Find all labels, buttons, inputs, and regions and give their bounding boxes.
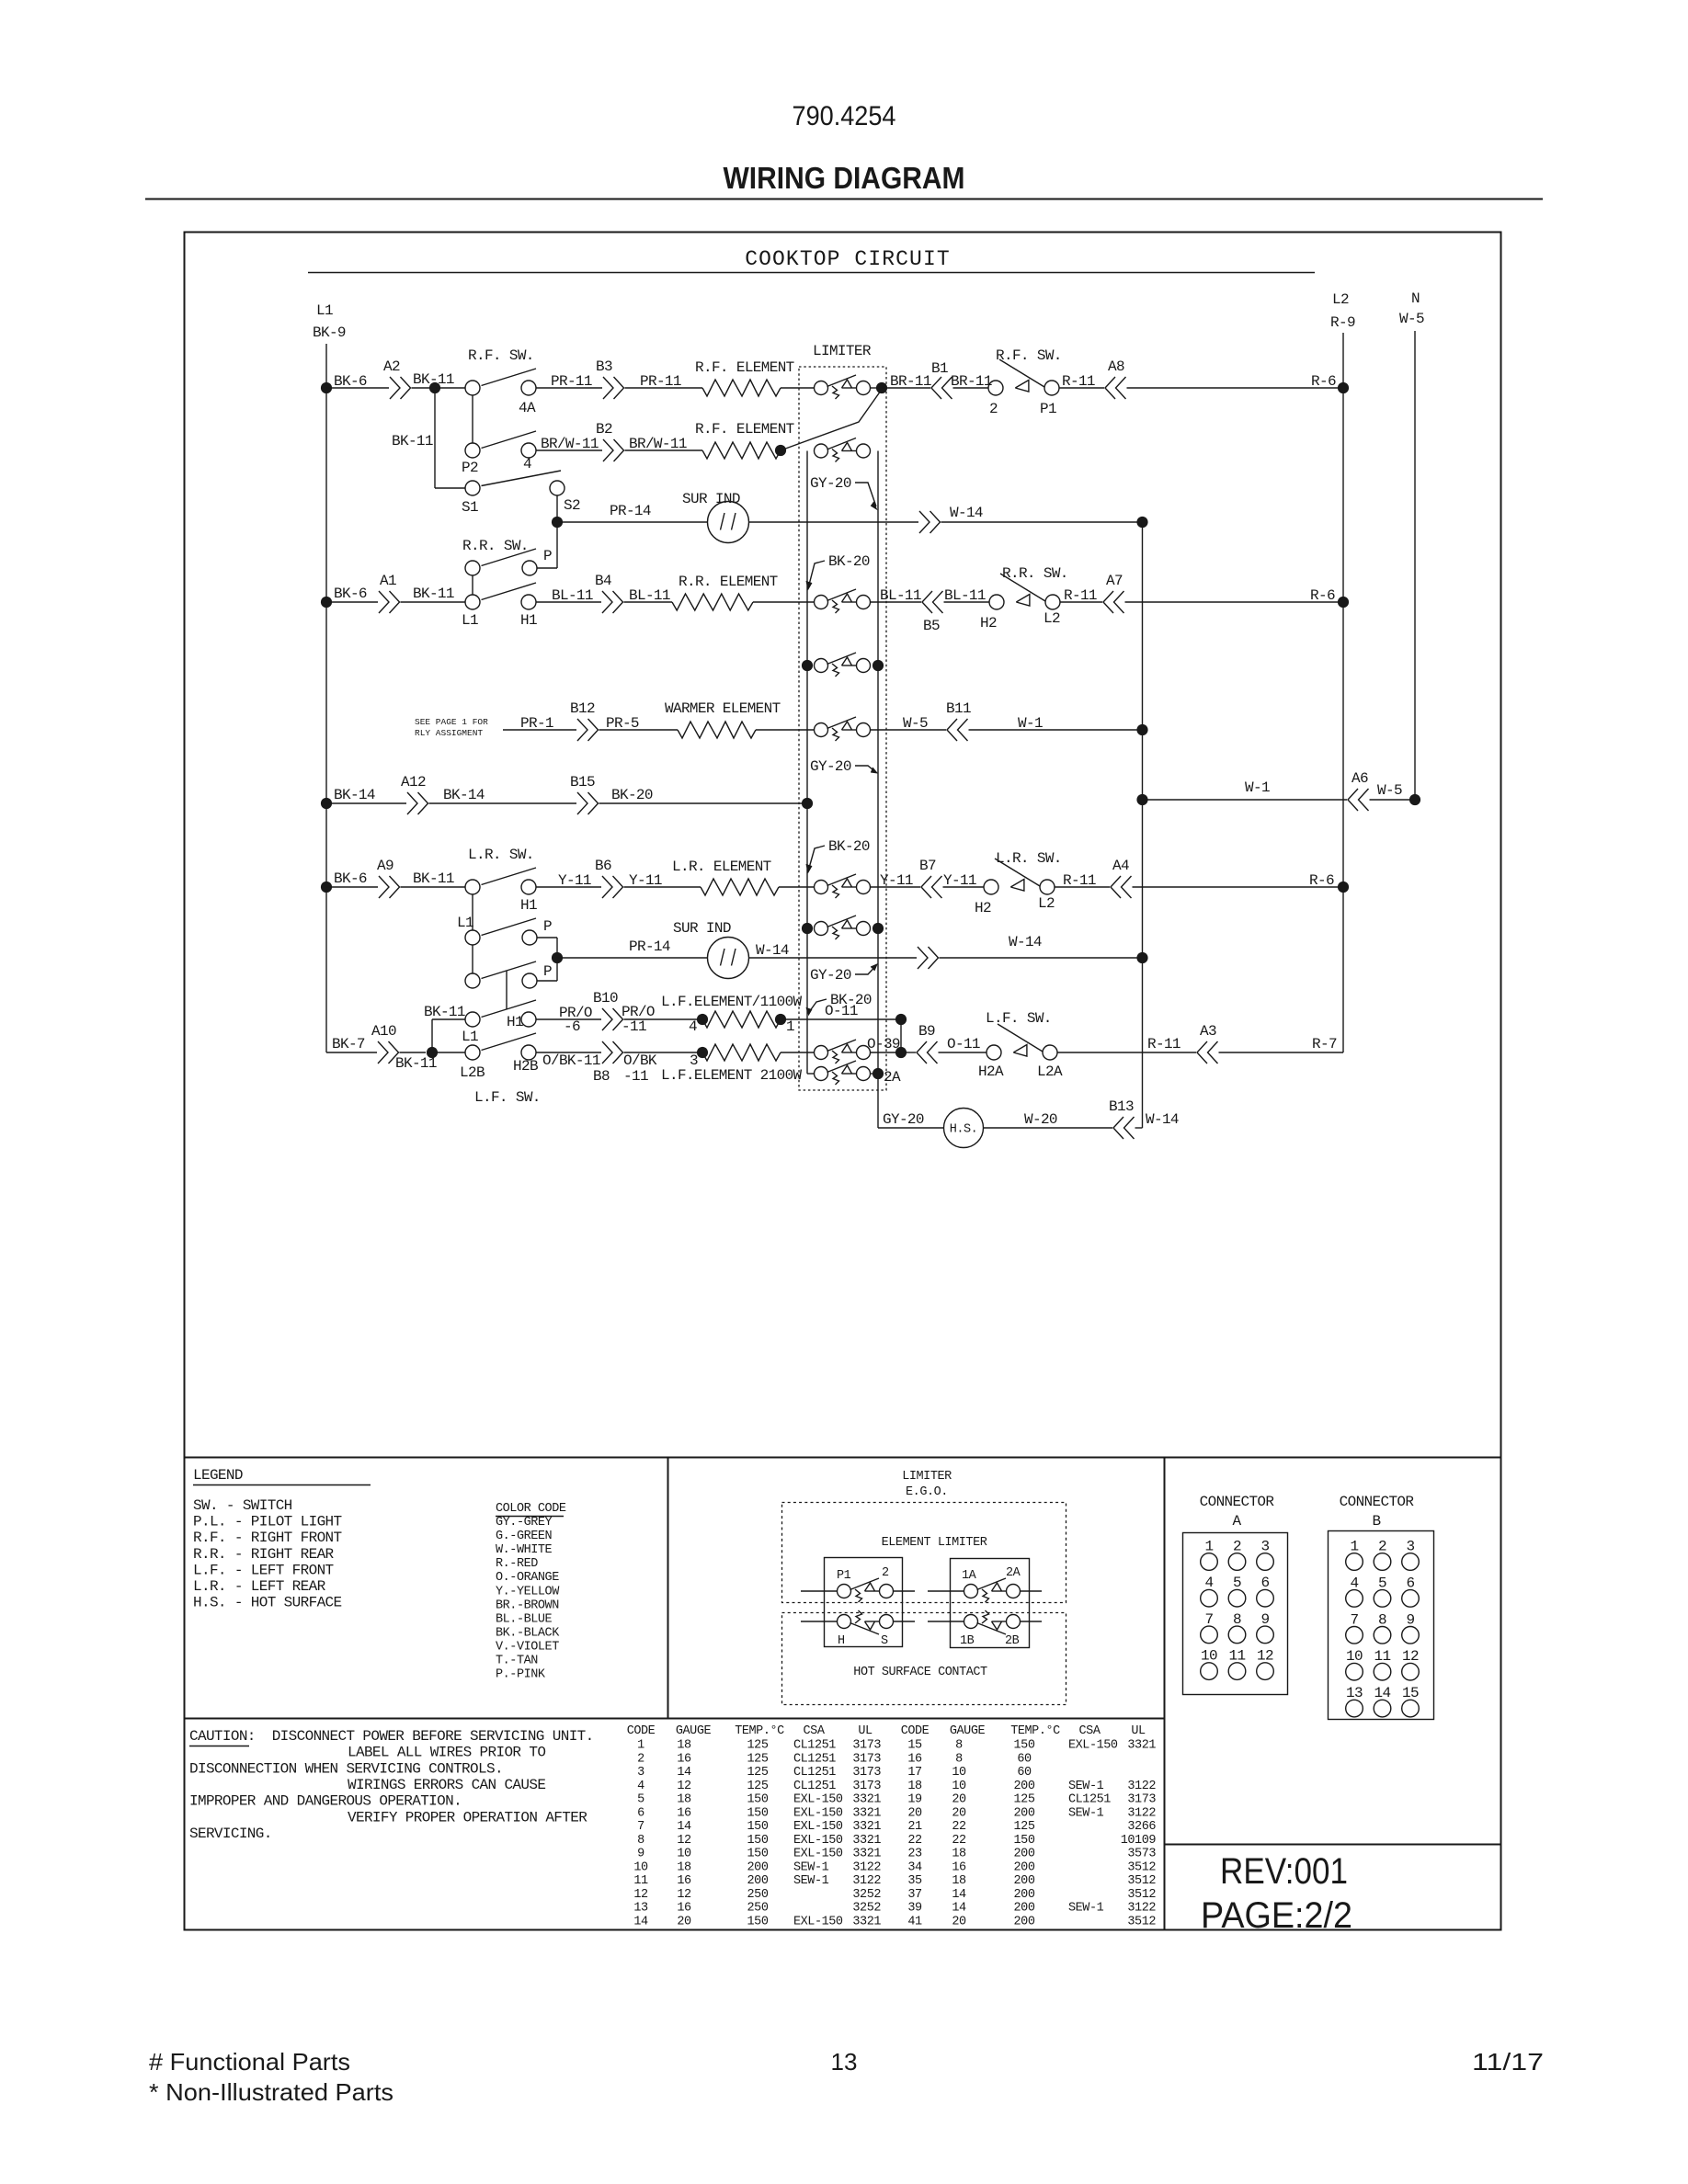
svg-text:BL-11: BL-11 — [944, 587, 986, 604]
svg-text:2A: 2A — [884, 1069, 901, 1086]
EGO switch 1A/2A — [964, 1585, 978, 1598]
wire to limiter — [779, 886, 815, 888]
svg-text:150: 150 — [1014, 1739, 1035, 1753]
svg-text:125: 125 — [747, 1780, 769, 1793]
svg-text:7: 7 — [1351, 1611, 1359, 1628]
EGO wire stub — [1021, 1590, 1043, 1592]
svg-text:150: 150 — [747, 1806, 769, 1820]
drawing border frame — [185, 233, 1501, 1930]
pilot circle S2 — [550, 481, 565, 495]
leader BK-20 3 — [809, 999, 827, 1012]
svg-text:TEMP.°C: TEMP.°C — [735, 1724, 784, 1738]
switch R.R. SW. main pole L1/H1 — [465, 595, 480, 609]
svg-text:SW. - SWITCH: SW. - SWITCH — [193, 1497, 292, 1514]
svg-text:17: 17 — [907, 1766, 922, 1780]
connector B3 — [603, 377, 613, 399]
svg-text:* Non-Illustrated Parts: * Non-Illustrated Parts — [149, 2078, 393, 2106]
svg-text:B13: B13 — [1109, 1098, 1134, 1115]
svg-text:GAUGE: GAUGE — [950, 1724, 986, 1738]
svg-text:200: 200 — [1014, 1874, 1035, 1888]
svg-text:3321: 3321 — [852, 1834, 881, 1848]
svg-text:LIMITER: LIMITER — [813, 343, 872, 359]
svg-text:GY-20: GY-20 — [810, 967, 851, 984]
svg-text:BK-11: BK-11 — [413, 870, 454, 887]
junction L1/BK-6 row RR — [321, 597, 332, 608]
svg-text:BK-20: BK-20 — [828, 553, 870, 570]
EGO switch P1/2 — [838, 1585, 851, 1598]
svg-text:-11: -11 — [623, 1068, 648, 1085]
svg-text:R.F. SW.: R.F. SW. — [468, 347, 534, 364]
wire link L1 to P2 — [472, 395, 473, 443]
svg-text:BR-11: BR-11 — [890, 373, 931, 390]
svg-text:A10: A10 — [371, 1023, 396, 1040]
svg-text:150: 150 — [747, 1916, 769, 1929]
svg-text:BK-11: BK-11 — [392, 433, 433, 449]
svg-text:VERIFY PROPER OPERATION AFTER: VERIFY PROPER OPERATION AFTER — [348, 1809, 587, 1826]
svg-text:BK-6: BK-6 — [334, 373, 367, 390]
svg-text:ELEMENT LIMITER: ELEMENT LIMITER — [882, 1536, 987, 1550]
junction BK-14 on L1 bus — [321, 798, 332, 809]
svg-text:CAUTION: DISCONNECT POWER BEF: CAUTION: DISCONNECT POWER BEFORE SERVICI… — [189, 1728, 594, 1745]
svg-text:LIMITER: LIMITER — [902, 1470, 952, 1484]
svg-text:RLY ASSIGMENT: RLY ASSIGMENT — [415, 728, 483, 738]
svg-text:B: B — [1373, 1513, 1381, 1530]
svg-text:12: 12 — [633, 1888, 648, 1902]
svg-text:P.L. - PILOT LIGHT: P.L. - PILOT LIGHT — [193, 1514, 342, 1530]
svg-text:L.R. SW.: L.R. SW. — [468, 847, 534, 863]
wire O/BK-11 — [536, 1052, 601, 1053]
wire BK-11 corner to LF switch — [431, 1019, 433, 1052]
wire PR-11 — [625, 387, 703, 389]
svg-text:CSA: CSA — [804, 1724, 826, 1738]
svg-text:3321: 3321 — [852, 1848, 881, 1861]
svg-text:L1: L1 — [316, 302, 333, 319]
svg-text:3321: 3321 — [852, 1820, 881, 1834]
svg-text:13: 13 — [831, 2048, 858, 2076]
svg-text:BL-11: BL-11 — [629, 587, 670, 604]
title underline — [308, 272, 1315, 274]
svg-text:9: 9 — [637, 1848, 644, 1861]
wire P lower to net — [537, 980, 557, 982]
svg-text:150: 150 — [747, 1793, 769, 1807]
EGO switch H/S — [838, 1615, 851, 1629]
svg-text:8: 8 — [637, 1834, 644, 1848]
svg-text:3122: 3122 — [1127, 1902, 1156, 1916]
svg-text:R.F. ELEMENT: R.F. ELEMENT — [695, 359, 794, 376]
svg-text:150: 150 — [747, 1834, 769, 1848]
wire R-11 — [1055, 886, 1110, 888]
svg-text:10109: 10109 — [1121, 1834, 1157, 1848]
svg-text:R-6: R-6 — [1309, 872, 1334, 889]
junction W-1 takeoff mid bus — [1136, 794, 1147, 805]
svg-text:EXL-150: EXL-150 — [793, 1834, 843, 1848]
svg-text:SUR IND: SUR IND — [673, 920, 731, 937]
svg-text:B8: B8 — [593, 1068, 610, 1085]
svg-text:L2A: L2A — [1037, 1064, 1063, 1080]
svg-text:L.F. SW.: L.F. SW. — [474, 1089, 541, 1106]
connector A7 — [1114, 591, 1124, 613]
wire P upper to net — [537, 937, 557, 938]
wire BK-11 — [401, 886, 466, 888]
junction W-14 mid bus — [1136, 952, 1147, 963]
wire L1 bus BK-9 vertical — [325, 344, 327, 1052]
wire BK-6 — [326, 387, 389, 389]
limiter bank pole 7 — [815, 922, 828, 936]
svg-text:200: 200 — [1014, 1806, 1035, 1820]
svg-text:EXL-150: EXL-150 — [793, 1848, 843, 1861]
resistor L.F. ELEMENT 1100W — [702, 1011, 781, 1028]
svg-text:2: 2 — [989, 401, 998, 417]
svg-text:14: 14 — [633, 1916, 648, 1929]
svg-text:PAGE:2/2: PAGE:2/2 — [1201, 1895, 1352, 1936]
svg-text:V.-VIOLET: V.-VIOLET — [496, 1640, 559, 1654]
connector B5 — [933, 591, 943, 613]
svg-text:BL-11: BL-11 — [552, 587, 593, 604]
svg-text:GY.-GREY: GY.-GREY — [496, 1516, 553, 1530]
svg-text:1B: 1B — [960, 1634, 975, 1648]
resistor R.F. ELEMENT 2 — [702, 442, 781, 459]
wire PR-5 — [599, 729, 679, 731]
svg-text:R.R. SW.: R.R. SW. — [462, 538, 529, 554]
wire PR-14 — [557, 521, 708, 523]
svg-text:16: 16 — [677, 1902, 691, 1916]
svg-text:B1: B1 — [931, 360, 948, 377]
limiter switch R.F. — [815, 381, 828, 395]
switch R.F. SW. main pole L1/4A — [465, 381, 480, 395]
connector A10 — [378, 1041, 388, 1064]
svg-text:P: P — [543, 963, 552, 980]
svg-text:6: 6 — [1407, 1575, 1415, 1591]
leader BK-20 2 — [809, 846, 826, 870]
svg-text:H2: H2 — [980, 615, 997, 631]
resistor L.R. ELEMENT — [701, 879, 779, 895]
leader GY-20 1 — [855, 483, 876, 506]
svg-text:R-11: R-11 — [1062, 373, 1095, 390]
svg-text:O-39: O-39 — [867, 1036, 900, 1052]
svg-text:PR-14: PR-14 — [610, 503, 651, 519]
limiter switch R.R. — [815, 596, 828, 609]
wire to limiter — [756, 729, 815, 731]
wire Y-11 — [943, 886, 985, 888]
svg-text:A9: A9 — [377, 858, 393, 874]
switch R.R. pilot pole /P — [465, 561, 480, 575]
caution band divider — [185, 1718, 1165, 1720]
svg-text:60: 60 — [1017, 1766, 1032, 1780]
svg-text:18: 18 — [952, 1874, 966, 1888]
svg-text:3173: 3173 — [852, 1752, 881, 1766]
svg-text:150: 150 — [747, 1848, 769, 1861]
svg-text:L2: L2 — [1038, 895, 1055, 912]
junction W-14 top of mid bus — [1136, 517, 1147, 528]
wire left bus corner to 2A pole — [807, 1073, 815, 1075]
switch L.R. SW. pilot H2/L2 — [984, 880, 998, 894]
svg-text:EXL-150: EXL-150 — [793, 1793, 843, 1807]
svg-text:3173: 3173 — [852, 1780, 881, 1793]
svg-text:5: 5 — [637, 1793, 644, 1807]
EGO wire stub — [801, 1621, 838, 1622]
wire R-6 to L2 bus — [1133, 886, 1344, 888]
svg-text:3321: 3321 — [852, 1916, 881, 1929]
connector B body — [1329, 1531, 1434, 1720]
svg-text:R.R. ELEMENT: R.R. ELEMENT — [679, 574, 778, 590]
svg-text:10: 10 — [1346, 1648, 1363, 1665]
junction element terminal 1 — [775, 1014, 786, 1025]
wire O-11 — [939, 1052, 987, 1053]
svg-text:3: 3 — [1407, 1539, 1415, 1555]
svg-text:BR/W-11: BR/W-11 — [541, 436, 599, 452]
svg-text:UL: UL — [1131, 1724, 1146, 1738]
legend band divider — [185, 1457, 1501, 1459]
svg-text:12: 12 — [677, 1780, 691, 1793]
svg-text:14: 14 — [952, 1888, 966, 1902]
limiter switch bank pole 2 — [815, 444, 828, 458]
svg-text:150: 150 — [747, 1820, 769, 1834]
wire PR/O-11 — [624, 1018, 703, 1020]
svg-text:BK-9: BK-9 — [313, 324, 346, 341]
svg-text:L2B: L2B — [460, 1064, 485, 1081]
hot surface contact dashed box — [782, 1613, 1066, 1705]
svg-text:P1: P1 — [837, 1569, 851, 1583]
wire link L1 to pilot — [472, 894, 473, 930]
junction BK-11 LF — [427, 1047, 438, 1058]
svg-text:B2: B2 — [596, 421, 612, 438]
element limiter dashed box — [782, 1503, 1066, 1603]
svg-text:200: 200 — [1014, 1848, 1035, 1861]
junction left bus pole7 — [802, 923, 813, 934]
svg-text:H1: H1 — [507, 1014, 523, 1030]
svg-text:Y-11: Y-11 — [558, 872, 591, 889]
svg-text:W.-WHITE: W.-WHITE — [496, 1543, 553, 1557]
svg-text:-11: -11 — [622, 1018, 646, 1035]
svg-text:20: 20 — [952, 1793, 966, 1807]
wire W-5 to N bus — [1370, 799, 1416, 801]
svg-text:7: 7 — [1205, 1611, 1214, 1628]
junction BK-20 left bus — [802, 798, 813, 809]
wire PR-1 — [503, 729, 576, 731]
wire BK-6 — [326, 886, 378, 888]
resistor R.R. ELEMENT — [672, 594, 753, 610]
wire W-1 — [1143, 799, 1348, 801]
wire BK-14 — [429, 802, 577, 804]
svg-text:B15: B15 — [570, 774, 595, 791]
svg-text:11: 11 — [633, 1874, 648, 1888]
svg-text:12: 12 — [677, 1888, 691, 1902]
wire to limiter 0-39 pole — [781, 1052, 815, 1053]
svg-text:O/BK-11: O/BK-11 — [542, 1052, 600, 1069]
svg-text:A6: A6 — [1352, 770, 1368, 787]
svg-text:H2B: H2B — [513, 1058, 538, 1075]
junction W-5 N bus — [1409, 794, 1420, 805]
svg-text:3122: 3122 — [1127, 1806, 1156, 1820]
wire Y-11 — [624, 886, 701, 888]
svg-text:3: 3 — [637, 1766, 644, 1780]
svg-text:4: 4 — [689, 1018, 697, 1035]
junction element to limiter — [775, 445, 786, 456]
header rule — [145, 199, 1543, 200]
connector A6 — [1359, 789, 1369, 811]
svg-text:BK-14: BK-14 — [334, 787, 375, 803]
svg-text:3512: 3512 — [1127, 1888, 1156, 1902]
connector A1 — [379, 591, 389, 613]
svg-text:20: 20 — [952, 1916, 966, 1929]
wire O-11 drop vertical — [900, 1019, 902, 1052]
svg-text:11: 11 — [1229, 1648, 1246, 1665]
svg-text:200: 200 — [1014, 1780, 1035, 1793]
svg-text:A8: A8 — [1108, 358, 1124, 375]
pilot lamp SUR IND 1 — [708, 502, 749, 543]
svg-text:GY-20: GY-20 — [810, 475, 851, 492]
wire W-1 to mid bus — [969, 729, 1143, 731]
switch R.R. SW. pilot H2/L2 — [989, 595, 1004, 609]
limiter switch warmer — [815, 723, 828, 737]
svg-text:1: 1 — [1205, 1539, 1214, 1555]
svg-text:COOKTOP CIRCUIT: COOKTOP CIRCUIT — [745, 247, 951, 271]
svg-text:R-6: R-6 — [1310, 587, 1335, 604]
svg-text:19: 19 — [907, 1793, 922, 1807]
connector B2 — [603, 439, 613, 461]
svg-text:BR/W-11: BR/W-11 — [629, 436, 687, 452]
wire R-11 — [1057, 1052, 1196, 1053]
wire PR-14 — [557, 957, 708, 959]
svg-text:B5: B5 — [923, 618, 940, 634]
svg-text:200: 200 — [1014, 1902, 1035, 1916]
svg-text:N: N — [1411, 290, 1420, 307]
svg-text:PR-11: PR-11 — [640, 373, 681, 390]
svg-text:3321: 3321 — [852, 1793, 881, 1807]
legend/limiter divider — [667, 1458, 669, 1719]
svg-text:39: 39 — [907, 1902, 922, 1916]
svg-text:200: 200 — [747, 1860, 769, 1874]
wire link pilot to L1 — [472, 575, 473, 595]
svg-text:3: 3 — [1261, 1539, 1270, 1555]
svg-text:CL1251: CL1251 — [793, 1780, 836, 1793]
svg-text:R-7: R-7 — [1312, 1036, 1337, 1052]
svg-text:14: 14 — [677, 1820, 691, 1834]
connector W-14 row2 — [918, 947, 928, 969]
svg-text:14: 14 — [1374, 1685, 1391, 1701]
EGO wire stub — [894, 1621, 916, 1622]
wire W-5 — [871, 729, 947, 731]
wire BR-11 — [953, 387, 989, 389]
svg-text:O.-ORANGE: O.-ORANGE — [496, 1571, 559, 1585]
svg-text:L.R. ELEMENT: L.R. ELEMENT — [672, 859, 771, 875]
svg-text:790.4254: 790.4254 — [793, 101, 896, 131]
svg-text:20: 20 — [952, 1806, 966, 1820]
svg-text:5: 5 — [1233, 1575, 1241, 1591]
svg-text:L.F. SW.: L.F. SW. — [986, 1010, 1052, 1027]
junction 0-39/O-11 — [895, 1047, 907, 1058]
svg-text:P.-PINK: P.-PINK — [496, 1668, 546, 1682]
junction right bus pole7 — [873, 923, 884, 934]
svg-text:A1: A1 — [380, 573, 396, 589]
svg-text:H1: H1 — [520, 612, 537, 629]
svg-text:37: 37 — [907, 1888, 922, 1902]
svg-text:125: 125 — [1014, 1820, 1035, 1834]
svg-text:3321: 3321 — [1127, 1739, 1156, 1753]
svg-text:8: 8 — [955, 1752, 963, 1766]
svg-text:13: 13 — [1346, 1685, 1363, 1701]
junction element terminal 4 — [697, 1014, 708, 1025]
limiter switch L.F. 2A pole — [815, 1067, 828, 1081]
junction R-6 on L2 row RR — [1338, 597, 1349, 608]
svg-text:3266: 3266 — [1127, 1820, 1156, 1834]
svg-text:# Functional Parts: # Functional Parts — [149, 2048, 350, 2076]
svg-text:PR-11: PR-11 — [551, 373, 592, 390]
svg-text:CL1251: CL1251 — [793, 1752, 836, 1766]
svg-text:B4: B4 — [595, 573, 611, 589]
svg-text:3173: 3173 — [1127, 1793, 1156, 1807]
svg-text:3252: 3252 — [852, 1888, 881, 1902]
svg-text:4: 4 — [637, 1780, 644, 1793]
wire SUR IND 2 net vertical — [556, 938, 558, 981]
svg-text:BK-7: BK-7 — [332, 1036, 365, 1052]
limiter bank left bus — [806, 451, 808, 1075]
junction R-6 on L2 row LR — [1338, 882, 1349, 893]
svg-text:EXL-150: EXL-150 — [793, 1820, 843, 1834]
wire to R.F. switch — [435, 387, 465, 389]
svg-text:L.R. SW.: L.R. SW. — [996, 850, 1062, 867]
svg-text:L.F. - LEFT FRONT: L.F. - LEFT FRONT — [193, 1562, 334, 1578]
EGO switch 1B/2B — [964, 1615, 978, 1629]
svg-text:REV:001: REV:001 — [1220, 1851, 1348, 1892]
svg-text:2A: 2A — [1006, 1566, 1021, 1580]
wire BK-7 corner — [326, 1052, 377, 1053]
wire R-6 to L2 — [1127, 387, 1344, 389]
connector A4 — [1122, 876, 1132, 898]
wire R-11 — [1059, 387, 1104, 389]
svg-text:W-1: W-1 — [1245, 779, 1270, 796]
svg-text:Y-11: Y-11 — [629, 872, 662, 889]
svg-text:1: 1 — [1351, 1539, 1359, 1555]
svg-text:8: 8 — [955, 1739, 963, 1753]
wire R-7 to L2 bus — [1219, 1052, 1344, 1053]
svg-text:W-14: W-14 — [756, 942, 789, 959]
svg-text:3512: 3512 — [1127, 1874, 1156, 1888]
switch R.F. SW. pole P2/4 — [465, 443, 480, 458]
svg-text:L1: L1 — [457, 915, 473, 931]
EGO wire stub — [1021, 1621, 1043, 1622]
wire BL-11 — [536, 601, 601, 603]
wire limiter to node BR-11 — [871, 387, 877, 389]
svg-text:O-11: O-11 — [947, 1036, 980, 1052]
limiter switch L.F. 0-39 — [815, 1046, 828, 1060]
svg-text:14: 14 — [677, 1766, 691, 1780]
svg-text:SEW-1: SEW-1 — [1068, 1780, 1104, 1793]
svg-text:22: 22 — [907, 1834, 922, 1848]
switch L.R. SW. main pole L1/H1 — [465, 880, 480, 894]
svg-text:2B: 2B — [1005, 1634, 1020, 1648]
wire W-14 — [749, 957, 918, 959]
wire BK-11 — [412, 387, 436, 389]
svg-text:BK-6: BK-6 — [334, 586, 367, 602]
wire PR-11 — [536, 387, 602, 389]
svg-text:CONNECTOR: CONNECTOR — [1200, 1494, 1275, 1510]
svg-text:20: 20 — [907, 1806, 922, 1820]
svg-text:W-1: W-1 — [1018, 715, 1043, 732]
junction L1/BK-6 row LR — [321, 882, 332, 893]
junction element terminal 3 — [697, 1047, 708, 1058]
svg-text:200: 200 — [1014, 1860, 1035, 1874]
limiter EGO solid box A — [825, 1558, 903, 1647]
svg-text:Y-11: Y-11 — [943, 872, 976, 889]
svg-text:15: 15 — [1402, 1685, 1419, 1701]
wire R-6 to L2 bus — [1125, 601, 1344, 603]
svg-text:2: 2 — [1233, 1539, 1241, 1555]
svg-text:CODE: CODE — [627, 1724, 656, 1738]
svg-text:GY-20: GY-20 — [883, 1111, 924, 1128]
svg-text:PR-5: PR-5 — [606, 715, 639, 732]
svg-text:12: 12 — [1402, 1648, 1419, 1665]
